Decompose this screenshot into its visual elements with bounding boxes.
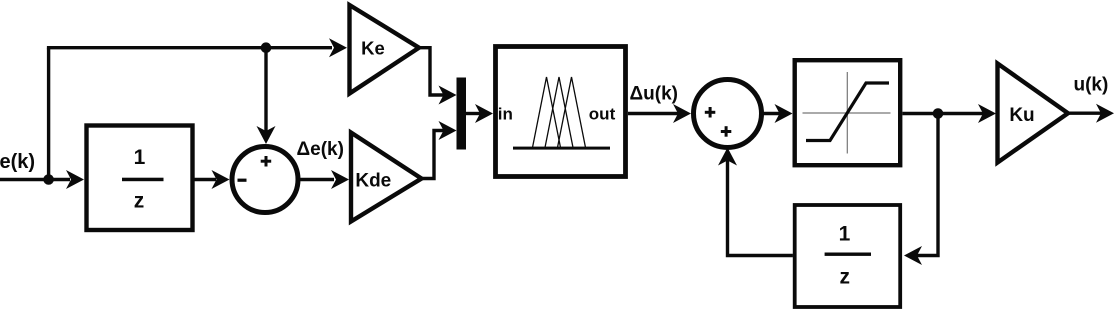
wire: top rail to gain Ke [47, 46, 332, 49]
svg-text:out: out [589, 105, 616, 124]
summer S2 (integrator sum) [694, 80, 762, 148]
arrowhead into delay block Z1 [66, 170, 84, 189]
wire: feedback down from node C [917, 114, 938, 256]
arrowhead into saturation block [775, 104, 793, 123]
wire: Kde output elbow to mux [420, 131, 445, 179]
svg-text:Δe(k): Δe(k) [297, 139, 344, 160]
mux bar [457, 78, 467, 150]
wire: branch up from node A to top rail [47, 48, 50, 180]
wire: Ku output [1066, 111, 1101, 114]
svg-text:Kde: Kde [355, 170, 391, 191]
arrowhead into delay block Z2 [904, 246, 922, 265]
svg-text:Ku: Ku [1009, 105, 1034, 126]
delay block Z1 (1/z) [87, 126, 193, 231]
arrowhead output u(k) [1096, 104, 1114, 123]
svg-text:1: 1 [839, 223, 851, 246]
arrowhead into summer S1 left [212, 170, 230, 189]
svg-text:z: z [134, 190, 145, 213]
svg-text:e(k): e(k) [0, 151, 35, 173]
wire: down from node B to summer S1 [264, 48, 267, 132]
svg-text:Ke: Ke [361, 37, 385, 58]
wire: mux to fuzzy block [466, 112, 480, 115]
delay block Z2 (1/z) [795, 205, 901, 307]
wire: Z2 output to summer S2 bottom [728, 160, 793, 256]
wire: saturation output to gain Ku [903, 112, 984, 115]
arrowhead into mux bottom [439, 121, 457, 140]
wire: Ke output elbow to mux [417, 48, 444, 95]
arrowhead into fuzzy block [475, 104, 493, 123]
node B: top rail junction [261, 42, 272, 53]
arrowhead into summer S1 top [257, 126, 276, 144]
summer S1 (error difference) [232, 147, 298, 213]
wire: summer S2 to saturation block [762, 112, 781, 115]
svg-text:Δu(k): Δu(k) [630, 84, 678, 105]
gain Ke (triangle) [350, 5, 420, 94]
arrowhead into mux top [439, 86, 457, 105]
membership function MF1 [533, 77, 561, 148]
saturation block [795, 60, 901, 165]
arrowhead into summer S2 left [673, 104, 691, 123]
svg-text:1: 1 [134, 146, 146, 169]
svg-text:u(k): u(k) [1074, 75, 1109, 96]
wire: Z1 output to summer S1 [195, 178, 217, 181]
wire: summer S1 to gain Kde [298, 178, 334, 181]
membership function MF3 [558, 77, 586, 148]
gain Ku (triangle) [998, 64, 1069, 163]
node A: input branch junction [43, 174, 54, 185]
fuzzy logic block U1 [496, 47, 626, 177]
node C: output branch junction [933, 108, 944, 119]
membership functions baseline [513, 147, 610, 150]
arrowhead into gain Ke [329, 38, 347, 57]
arrowhead into gain Kde [331, 170, 349, 189]
wire: input e(k) horizontal [0, 178, 70, 181]
gain Kde (triangle) [351, 133, 422, 222]
svg-text:z: z [839, 265, 850, 288]
arrowhead into gain Ku [978, 104, 996, 123]
arrowhead into summer S2 bottom [718, 148, 737, 166]
membership function MF2 [545, 77, 573, 148]
wire: fuzzy block to summer S2 [628, 112, 678, 115]
svg-text:in: in [498, 105, 513, 124]
